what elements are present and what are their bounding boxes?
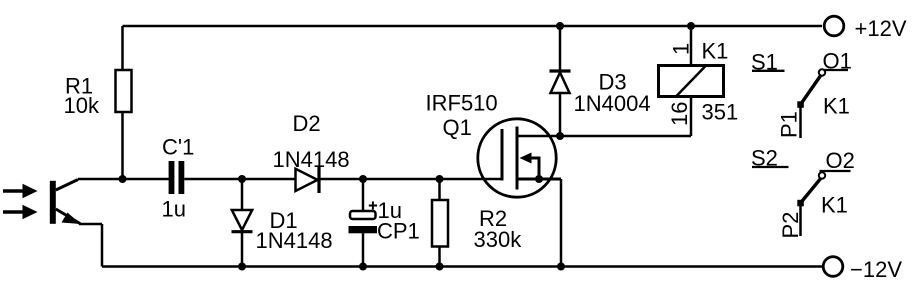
- diode D2 triangle: [296, 169, 318, 191]
- svg-text:−12V: −12V: [850, 257, 902, 282]
- svg-text:1N4004: 1N4004: [574, 91, 651, 116]
- svg-text:1: 1: [669, 43, 694, 55]
- svg-text:C'1: C'1: [162, 135, 194, 160]
- terminal -12V circle: [823, 257, 843, 277]
- svg-text:K1: K1: [702, 39, 729, 64]
- node junction D1 top: [238, 175, 246, 183]
- phototransistor collector: [56, 180, 78, 191]
- node junction CP1 top: [359, 175, 367, 183]
- wire D1 bottom vertical: [241, 233, 244, 267]
- node junction D3 bottom / drain rail: [556, 132, 564, 140]
- wire R2 top vertical: [438, 179, 441, 200]
- capacitor C'1 plate left: [169, 161, 175, 194]
- transistor Q1 body arrow line: [528, 158, 539, 179]
- transistor Q1 gate bar: [501, 129, 504, 181]
- wire top rail +12V: [123, 25, 823, 28]
- node junction K1 pin1 top: [687, 22, 695, 30]
- svg-text:Q1: Q1: [443, 115, 472, 140]
- wire emitter down vertical: [101, 224, 104, 267]
- wire D3 bottom vertical: [559, 93, 562, 136]
- svg-text:CP1: CP1: [377, 219, 420, 244]
- wire CP1 top vertical: [362, 179, 365, 211]
- node junction D1 bottom: [238, 263, 246, 271]
- transistor Q1 body arrow head: [520, 153, 532, 164]
- switch S1 contact circle: [819, 69, 825, 75]
- diode D3 cathode bar: [550, 69, 571, 72]
- switch S2 contact circle: [819, 172, 825, 178]
- node junction D3 top: [556, 22, 564, 30]
- svg-text:O2: O2: [826, 148, 855, 173]
- svg-text:330k: 330k: [474, 227, 523, 252]
- phototransistor light arrow 1: [3, 184, 38, 198]
- node junction R2 bottom: [436, 263, 444, 271]
- wire CP1 bottom vertical: [362, 233, 365, 266]
- wire C'1 to D2: [184, 178, 295, 181]
- wire source down vertical: [560, 179, 563, 267]
- relay K1 coil diagonal: [676, 66, 706, 97]
- transistor Q1 channel bar: [516, 127, 519, 190]
- O2 underline: [820, 170, 851, 172]
- svg-text:16: 16: [667, 102, 692, 126]
- svg-text:P2: P2: [778, 212, 803, 239]
- capacitor CP1 plus plate outline: [350, 211, 376, 219]
- relay K1 coil box: [659, 66, 724, 97]
- node junction R1/base wire: [119, 175, 127, 183]
- wire P2 stub: [799, 203, 802, 236]
- capacitor CP1 minus plate solid: [349, 226, 378, 233]
- wire K1 pin 16: [690, 97, 693, 137]
- switch S1 arm: [801, 76, 821, 105]
- wire emitter horizontal: [79, 223, 102, 226]
- resistor R1: [116, 70, 132, 112]
- diode D1 triangle: [232, 210, 252, 230]
- svg-text:351: 351: [702, 100, 739, 125]
- wire R1 top vertical: [121, 26, 124, 70]
- wire D1 top vertical: [241, 179, 244, 210]
- phototransistor emitter: [56, 209, 80, 224]
- switch S1 pivot dot: [797, 101, 804, 108]
- wire bottom rail -12V: [102, 265, 823, 268]
- wire D3 top vertical: [559, 26, 562, 70]
- wire Q1 source lead: [517, 178, 561, 181]
- svg-text:10k: 10k: [64, 93, 100, 118]
- svg-text:K1: K1: [823, 94, 850, 119]
- svg-text:1u: 1u: [162, 197, 186, 222]
- phototransistor emitter arrow: [62, 213, 81, 225]
- svg-text:IRF510: IRF510: [426, 91, 498, 116]
- svg-text:+12V: +12V: [855, 16, 907, 41]
- svg-text:P1: P1: [777, 111, 802, 138]
- diode D3 triangle: [551, 73, 570, 94]
- svg-text:K1: K1: [821, 193, 848, 218]
- node junction CP1 bottom: [359, 263, 367, 271]
- svg-text:D2: D2: [293, 111, 321, 136]
- switch S2 arm: [801, 179, 821, 203]
- wire D2 to gate: [321, 178, 503, 181]
- svg-text:1N4148: 1N4148: [273, 147, 350, 172]
- svg-text:1N4148: 1N4148: [256, 228, 333, 253]
- O1 underline: [820, 69, 849, 71]
- node junction R2 top: [436, 175, 444, 183]
- switch S2 pivot dot: [797, 200, 804, 207]
- S1 underline: [752, 70, 785, 72]
- wire collector to C'1: [78, 178, 169, 181]
- node junction source bottom: [557, 263, 565, 271]
- node junction source/body: [535, 175, 543, 183]
- wire P1 stub: [799, 105, 802, 139]
- wire Q1 drain to relay: [517, 135, 691, 138]
- wire R2 bottom vertical: [438, 247, 441, 267]
- resistor R2: [432, 200, 448, 247]
- capacitor C'1 plate right: [179, 161, 185, 194]
- wire R1 bottom vertical: [121, 112, 124, 179]
- S2 underline: [752, 166, 789, 168]
- diode D1 cathode bar: [232, 230, 253, 233]
- wire K1 pin 1: [690, 26, 693, 65]
- phototransistor light arrow 2: [3, 205, 38, 219]
- diode D2 cathode bar: [317, 167, 320, 193]
- capacitor CP1 plus sign: [369, 201, 377, 209]
- op-amp style circle of MOSFET Q1: [478, 119, 556, 197]
- terminal +12V circle: [824, 16, 844, 36]
- phototransistor base bar: [50, 181, 56, 224]
